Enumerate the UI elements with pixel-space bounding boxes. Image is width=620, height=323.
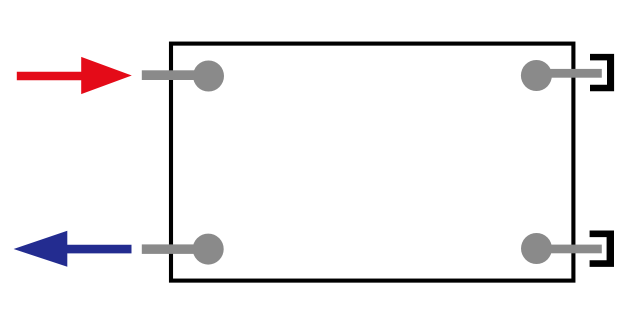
return arrow (blue, outlet) xyxy=(14,231,132,267)
port top-right xyxy=(521,60,552,91)
port bottom-left xyxy=(193,234,224,265)
pipe stub bottom-left xyxy=(142,244,209,254)
supply arrow (red, inlet) xyxy=(17,57,132,94)
port top-left xyxy=(193,61,224,92)
blanking plug bottom-right xyxy=(590,231,614,267)
pipe stub top-left xyxy=(142,70,209,80)
radiator body xyxy=(171,44,573,281)
pipe stub bottom-right xyxy=(537,245,602,254)
blanking plug top-right xyxy=(590,54,614,91)
port bottom-right xyxy=(521,233,552,264)
pipe stub top-right xyxy=(536,69,601,78)
